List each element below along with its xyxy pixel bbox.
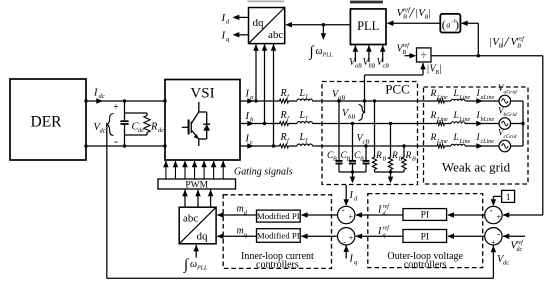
ac source V_bGrid	[499, 118, 511, 130]
cropped mark above PLL block	[350, 1, 383, 4]
svg-text:I: I	[245, 134, 250, 145]
svg-text:R: R	[430, 133, 437, 143]
svg-text:+: +	[113, 102, 119, 113]
output arrow I_q	[234, 34, 249, 36]
wire: |V_B| sense	[364, 75, 366, 113]
svg-text:B: B	[403, 14, 407, 21]
wire: Modified PI q output m_q to abc/dq	[217, 235, 256, 237]
freewheeling diode inside VSI	[199, 111, 207, 113]
wire: V_dc^ref input to J4	[503, 235, 525, 237]
svg-text:ω: ω	[190, 259, 197, 270]
svg-text:+: +	[349, 213, 354, 222]
wire: PLL output to dq/abc	[286, 24, 350, 26]
svg-text:L: L	[453, 89, 459, 99]
inductor L_Line phase c	[451, 144, 465, 146]
svg-text:Line: Line	[436, 95, 448, 101]
wire: capacitor bank neutral stub	[352, 172, 354, 178]
svg-text:I: I	[377, 205, 382, 216]
wire: phase b current tap	[264, 44, 266, 123]
svg-text:ω: ω	[316, 46, 323, 57]
svg-text:(: (	[442, 18, 446, 32]
svg-text:R: R	[375, 151, 382, 161]
Modified PI block (d axis)	[257, 210, 301, 222]
svg-text:Gating signals: Gating signals	[234, 166, 293, 177]
svg-text:dc: dc	[503, 260, 509, 267]
resistor R_dc	[125, 112, 148, 114]
node: VSI dc- input	[163, 144, 166, 147]
wire: PLL input V_aB	[354, 45, 356, 62]
wire: PI q output I_q^ref to J2	[356, 235, 403, 237]
wire: |V_B|/V_B^ref feedback down right side	[542, 56, 544, 215]
wire: DC link top rail	[86, 100, 165, 102]
svg-text:L: L	[453, 133, 459, 143]
constant block 1	[502, 190, 515, 202]
resistor R_Line phase b	[437, 122, 445, 126]
node: resistor bank star point	[389, 170, 392, 173]
svg-text:I: I	[349, 190, 354, 201]
svg-text:L: L	[453, 111, 459, 121]
svg-text:B: B	[360, 157, 364, 163]
svg-text:PCC: PCC	[385, 82, 410, 97]
wire: node up to inverse block	[477, 23, 479, 56]
wire: capacitor bank common bus	[339, 171, 366, 173]
svg-text:B: B	[347, 157, 351, 163]
svg-text:controllers: controllers	[256, 260, 299, 271]
svg-text:PI: PI	[421, 211, 429, 221]
resistor R_f phase b	[280, 122, 289, 126]
svg-text:-: -	[114, 134, 118, 148]
wire: phase c current tap	[273, 44, 275, 146]
svg-text:R: R	[391, 151, 398, 161]
ac source V_aGrid	[499, 95, 511, 107]
current arrow I_a	[247, 98, 254, 104]
wire: inverse block to PLL	[388, 22, 441, 24]
wire: grid source b to neutral bus	[511, 123, 523, 125]
wire: phase c line	[240, 145, 280, 147]
wire: DC link bottom rail	[86, 145, 165, 147]
svg-text:c: c	[250, 139, 253, 146]
svg-text:Modified PI: Modified PI	[257, 211, 300, 221]
svg-text:|: |	[416, 8, 418, 19]
svg-text:dc: dc	[100, 128, 106, 135]
svg-text:Modified PI: Modified PI	[257, 231, 300, 241]
cropped mark above dq/abc block	[248, 1, 285, 3]
svg-text:R: R	[280, 132, 287, 143]
output arrow I_d	[234, 16, 249, 18]
outer-loop dashed boundary	[368, 194, 483, 268]
transformation block abc/dq (modulation)	[179, 207, 216, 244]
svg-text:VSI: VSI	[190, 86, 214, 102]
svg-text:Line: Line	[436, 117, 448, 123]
node V_aB on phase a	[337, 99, 340, 102]
resistor R_Line phase a	[437, 99, 445, 103]
stub arrow I_d into J1	[345, 185, 347, 205]
node V_bB on phase b	[351, 122, 354, 125]
svg-text:abc: abc	[268, 29, 283, 41]
current arrow I_dc	[96, 98, 103, 104]
resistor R_Line phase c	[437, 144, 445, 148]
svg-text:m: m	[237, 226, 244, 237]
wire: resistor bank neutral stub	[390, 172, 392, 178]
svg-text:-: -	[490, 205, 493, 215]
wire: Modified PI d output m_d to abc/dq	[217, 214, 256, 216]
svg-text:|: |	[439, 64, 441, 75]
svg-text:I: I	[349, 254, 354, 265]
ac source V_cGrid	[499, 140, 511, 152]
DER source block	[10, 79, 86, 160]
wire: phase a current tap	[255, 44, 257, 101]
svg-text:I: I	[93, 88, 98, 99]
svg-text:q: q	[383, 233, 386, 239]
node: DER top terminal	[84, 99, 87, 102]
svg-text:ref: ref	[517, 35, 525, 42]
svg-text:PLL: PLL	[196, 266, 208, 272]
Weak ac grid dashed boundary	[424, 87, 529, 184]
svg-text:cGrid: cGrid	[504, 134, 517, 140]
svg-text:+: +	[491, 238, 496, 247]
node V_cB on phase c	[364, 144, 367, 147]
resistor R_f phase a	[280, 99, 289, 103]
svg-text:÷: ÷	[421, 50, 427, 62]
wire: resistor bank common bus	[375, 171, 405, 173]
svg-text:cB: cB	[383, 64, 390, 70]
current arrow I_b	[247, 121, 254, 127]
svg-text:aLine: aLine	[481, 95, 495, 101]
node: C_dc bottom	[123, 144, 126, 147]
inductor L_f phase c	[297, 144, 313, 146]
svg-text:R: R	[430, 111, 437, 121]
svg-text:B: B	[412, 157, 416, 163]
svg-text:aGrid: aGrid	[504, 90, 517, 96]
svg-text:PLL: PLL	[322, 53, 334, 59]
wire: PLL input V_bB	[368, 45, 370, 62]
svg-text:L: L	[299, 88, 306, 99]
svg-text:Line: Line	[459, 139, 471, 145]
svg-text:dc: dc	[158, 127, 164, 134]
svg-text:dc: dc	[99, 93, 105, 100]
svg-text:controllers: controllers	[404, 260, 447, 271]
inductor L_f phase b	[297, 122, 313, 124]
svg-text:1: 1	[506, 193, 511, 203]
wire: PI d output I_d^ref to J1	[356, 214, 403, 216]
stub arrow: integral of omega_PLL (top)	[322, 25, 324, 34]
wire: PLL input V_cB	[382, 45, 384, 62]
inductor L_Line phase a	[451, 99, 465, 101]
svg-text:|: |	[490, 37, 492, 48]
svg-text:bGrid: bGrid	[504, 112, 517, 118]
svg-text:-: -	[343, 237, 346, 247]
current arrow I_c	[247, 143, 254, 149]
svg-text:+: +	[349, 234, 354, 243]
node: |V_B| sense tap on phase a	[363, 99, 366, 102]
PLL block	[350, 9, 386, 45]
wire: grid source c to neutral bus	[511, 145, 523, 147]
summing junction J3 (ac voltage)	[485, 206, 502, 223]
svg-text:abc: abc	[183, 213, 198, 225]
node R_B top phase b	[389, 122, 392, 125]
svg-text:|: |	[429, 8, 431, 19]
node on divider output	[477, 54, 480, 57]
capacitor C_dc	[124, 101, 126, 120]
VSI converter block	[165, 80, 240, 161]
capacitor C_B phase a	[338, 101, 340, 161]
svg-text:DER: DER	[31, 114, 63, 131]
PI block (d axis)	[403, 209, 447, 221]
svg-text:Line: Line	[459, 95, 471, 101]
stub arrow I_q into J2	[345, 245, 347, 258]
svg-text:R: R	[430, 89, 437, 99]
svg-text:B: B	[333, 157, 337, 163]
svg-text:L: L	[299, 110, 306, 121]
current arrow I_bLine	[476, 121, 483, 127]
svg-text:a: a	[250, 94, 253, 101]
svg-text:): )	[455, 18, 459, 32]
current arrow I_aLine	[476, 98, 483, 104]
wire: grid source a to neutral bus	[511, 100, 523, 102]
svg-text:B: B	[383, 157, 387, 163]
svg-text:cB: cB	[363, 139, 370, 146]
svg-text:B: B	[517, 43, 521, 50]
svg-text:I: I	[245, 111, 250, 122]
summing junction J4 (dc voltage)	[485, 228, 502, 245]
svg-text:R: R	[405, 151, 412, 161]
svg-text:L: L	[299, 132, 306, 143]
capacitor C_B phase c	[365, 146, 367, 161]
inverse block (x)^-1	[440, 14, 460, 33]
current arrow I_cLine	[476, 143, 483, 149]
wire: V_B^ref into divider	[405, 55, 412, 57]
resistor R_f phase c	[280, 144, 289, 148]
wire: J3 output to PI d	[448, 214, 485, 216]
wire: phase a line	[240, 100, 280, 102]
svg-text:Line: Line	[436, 139, 448, 145]
svg-text:R: R	[280, 110, 287, 121]
svg-text:-: -	[497, 228, 500, 238]
svg-text:a: a	[446, 21, 450, 30]
svg-text:I: I	[245, 89, 250, 100]
svg-text:aB: aB	[338, 95, 345, 102]
PI block (q axis)	[403, 230, 447, 243]
svg-text:dq: dq	[253, 17, 265, 29]
node: VSI dc+ input	[163, 99, 166, 102]
svg-text:Weak ac grid: Weak ac grid	[442, 160, 511, 175]
node R_B top phase c	[402, 144, 405, 147]
Modified PI block (q axis)	[257, 229, 301, 243]
summing junction J1 (d current)	[338, 206, 355, 223]
svg-text:aB: aB	[355, 64, 362, 70]
brace for |V_B| measurement	[359, 105, 365, 121]
node: DER bottom terminal	[84, 144, 87, 147]
svg-text:bLine: bLine	[481, 117, 495, 123]
svg-text:m: m	[237, 204, 244, 215]
wires abc/dq to PWM	[184, 190, 186, 207]
divider block (V_B^ref / |V_B|)	[417, 48, 432, 62]
wire: J2 output to Modified PI q	[302, 235, 338, 237]
PWM block	[158, 179, 236, 189]
svg-text:+: +	[496, 212, 501, 221]
svg-text:-: -	[342, 205, 345, 215]
inner-loop dashed boundary	[223, 195, 331, 269]
svg-text:dc: dc	[517, 247, 523, 253]
svg-text:I: I	[377, 226, 382, 237]
node R_B top phase a	[373, 99, 376, 102]
transformation block dq/abc (current measurement)	[249, 8, 285, 44]
wire: J1 output to Modified PI d	[302, 214, 338, 216]
wire: phase b line	[240, 123, 280, 125]
capacitor C_B phase b	[352, 124, 354, 161]
PCC dashed boundary	[322, 82, 418, 185]
svg-text:R: R	[280, 88, 287, 99]
svg-text:PI: PI	[421, 232, 429, 242]
wire: V_dc feedback (dc link to J4)	[106, 123, 108, 278]
wire: J4 output to PI q	[448, 235, 485, 237]
inductor L_f phase a	[297, 99, 313, 101]
gating signal arrows PWM to VSI	[165, 161, 167, 179]
svg-text:R: R	[150, 122, 158, 133]
resistor R_B phase b	[390, 124, 392, 158]
wire: constant 1 to J3	[493, 195, 501, 197]
svg-text:Line: Line	[459, 117, 471, 123]
brace for V_dc measurement	[107, 114, 113, 136]
svg-text:bB: bB	[369, 64, 376, 70]
node: capacitor bank star point	[351, 170, 354, 173]
resistor R_B phase c	[403, 146, 405, 157]
summing junction J2 (q current)	[338, 228, 355, 245]
svg-text:bB: bB	[348, 114, 355, 121]
svg-text:PWM: PWM	[185, 181, 208, 191]
transistor (IGBT) inside VSI	[198, 102, 200, 112]
wire: grid neutral bus	[522, 101, 524, 146]
svg-text:cLine: cLine	[481, 139, 495, 145]
inductor L_Line phase b	[451, 122, 465, 124]
node: C_dc top	[123, 99, 126, 102]
node on PLL output wire	[322, 23, 325, 26]
resistor R_B phase a	[374, 101, 376, 157]
stub arrow: integral of omega_PLL (bottom)	[195, 245, 197, 258]
svg-text:dq: dq	[197, 231, 209, 243]
wire: divider output	[431, 55, 543, 57]
svg-text:PLL: PLL	[357, 19, 379, 33]
node: grid neutral bus / phase b	[521, 122, 524, 125]
